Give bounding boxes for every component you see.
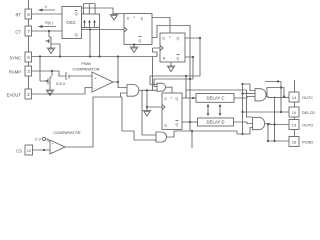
svg-text:12: 12 xyxy=(27,149,31,153)
comb box lower (cropped block) xyxy=(82,14,100,28)
pin OUTD 13 xyxy=(289,120,299,130)
svg-text:Q: Q xyxy=(177,57,180,61)
svg-text:COMPARATOR: COMPARATOR xyxy=(53,130,80,135)
current arrow R(t) xyxy=(39,26,57,28)
wire CT to OSC xyxy=(32,30,63,32)
arrowhead current R xyxy=(39,25,43,28)
svg-text:Q: Q xyxy=(74,11,77,16)
svg-text:SYNC: SYNC xyxy=(9,56,21,61)
AND gate OUTD xyxy=(253,117,265,129)
svg-text:COMPARATOR: COMPARATOR xyxy=(72,67,99,72)
wire DELAY D out to OUTD gate xyxy=(234,122,253,124)
svg-text:Q: Q xyxy=(177,37,180,41)
node right rail xyxy=(241,83,243,85)
wire FF2 Qbar to AND3 xyxy=(154,57,193,87)
wire OUTD gate output to pin 13 xyxy=(265,124,289,125)
wire mid cross bus xyxy=(121,97,123,131)
node CS wire xyxy=(43,149,45,151)
svg-text:16: 16 xyxy=(292,139,297,144)
svg-text:13: 13 xyxy=(292,122,297,127)
wire comb teeth / CLK drops xyxy=(85,20,100,57)
wire left pin column vertical xyxy=(28,0,30,99)
wire FF1 Q to FF2 xyxy=(152,18,170,34)
wire EAOUT to PWM comparator inverting input xyxy=(32,88,93,95)
svg-text:CT: CT xyxy=(15,30,21,35)
wire RAMP to 0.8V offset xyxy=(32,71,67,76)
svg-text:OUTD: OUTD xyxy=(302,122,313,127)
pin CS 12 xyxy=(25,145,33,155)
pin SYNC 6 xyxy=(25,52,32,62)
wire AND1 output bus xyxy=(139,89,157,91)
svg-text:CS: CS xyxy=(16,149,22,154)
delay block DELAY D xyxy=(198,118,234,126)
AND gate AND2 xyxy=(156,132,167,142)
wire stub below bus xyxy=(191,131,193,148)
svg-text:Q: Q xyxy=(139,39,142,43)
node OUTC loop xyxy=(283,95,285,97)
node AND1 out xyxy=(146,89,148,91)
flip-flop FF2 xyxy=(160,33,185,62)
pin RAMP 3 xyxy=(25,66,32,76)
node RAMP junction xyxy=(51,70,53,72)
wire AND2 input lower xyxy=(122,131,156,140)
arrowhead current I xyxy=(39,9,43,12)
node SYNC junctions xyxy=(39,55,41,57)
transistor Q1 CT discharge xyxy=(49,31,60,57)
svg-text:DELCD: DELCD xyxy=(302,110,315,115)
flip-flop FF3 pwm latch xyxy=(162,93,182,130)
ground at FF3 clock xyxy=(143,107,152,116)
op-amp PWM comparator xyxy=(92,72,113,92)
svg-text:Q: Q xyxy=(141,17,144,21)
pin RT 8 xyxy=(25,9,32,19)
ground at FF1 D input xyxy=(110,14,119,21)
arrowheads delay C-D xyxy=(207,104,210,107)
transistor Q1 arrow xyxy=(46,40,49,42)
wire AND2 output to bus xyxy=(166,131,174,137)
arrows between delay blocks xyxy=(208,105,220,116)
wire FF3 clock xyxy=(147,90,162,107)
pin OUTC 14 xyxy=(289,92,299,102)
wire FF3 Qbar to DELAY D xyxy=(182,121,198,123)
svg-text:EAOUT: EAOUT xyxy=(7,93,22,98)
svg-text:Q: Q xyxy=(176,97,179,101)
terminal 2V reference xyxy=(42,137,45,140)
pin CT 7 xyxy=(25,26,32,36)
svg-text:IT: IT xyxy=(45,5,48,10)
wire OUTC feedback loop xyxy=(267,88,284,97)
wire CS comparator to AND1 xyxy=(65,93,127,147)
oscillator OSC xyxy=(62,7,82,39)
wire rail to OUTC gate top input xyxy=(243,84,256,91)
flip-flop FF1 toggle xyxy=(124,14,152,45)
svg-text:Q: Q xyxy=(176,123,179,127)
svg-text:PGND: PGND xyxy=(302,139,313,144)
wire bottom bus xyxy=(174,122,253,134)
wire riser to top bus xyxy=(186,90,252,117)
ground under FF2 xyxy=(167,62,176,72)
AND gate AND3 xyxy=(157,83,166,91)
wire DELAY C out to OUTC gate xyxy=(234,97,255,99)
wire FF3 Q to DELAY C xyxy=(182,97,196,99)
transistor Q2 RAMP discharge xyxy=(40,57,52,85)
svg-text:RAMP: RAMP xyxy=(9,70,21,75)
transistor Q2 arrow xyxy=(45,80,48,82)
node bus131 xyxy=(191,130,193,132)
svg-text:10: 10 xyxy=(292,110,297,115)
svg-text:Q: Q xyxy=(74,32,77,37)
svg-text:OUTC: OUTC xyxy=(302,95,313,100)
ground under Q1 xyxy=(47,45,56,54)
node FF2 Q bus xyxy=(185,75,187,77)
svg-text:OSC: OSC xyxy=(66,20,76,25)
wire FF2 clock feed xyxy=(153,48,161,90)
wire FF2 Q to AND3 and delay bus xyxy=(150,38,200,84)
wire OUTC gate output to pin 14 xyxy=(266,96,289,99)
wire PGND line to pin 16 xyxy=(268,140,289,142)
pin DELCD 10 xyxy=(289,107,299,117)
node OUTD line xyxy=(267,123,269,125)
node CT junction xyxy=(48,30,50,32)
pin EAOUT 2 xyxy=(25,89,32,99)
comb bus upper (cropped wires) xyxy=(82,4,104,15)
wire DELCD line to pin 10 xyxy=(243,111,290,113)
svg-text:DELAY D: DELAY D xyxy=(207,120,225,125)
svg-text:DELAY C: DELAY C xyxy=(207,96,225,101)
node PGND crossings xyxy=(267,140,269,142)
wire rail to OUTC gate mid input xyxy=(243,93,256,95)
wire FF1 Qbar down bus xyxy=(152,26,190,123)
current arrow I top xyxy=(39,9,56,11)
svg-text:R(IT): R(IT) xyxy=(45,21,53,26)
svg-text:RT: RT xyxy=(15,13,21,18)
wire cross vertical x278 xyxy=(265,82,281,113)
node FF3 clock xyxy=(146,106,148,108)
wire PWM comparator output to AND1 xyxy=(113,57,127,88)
wire cross vertical x275 xyxy=(268,97,275,142)
node FF1 bottom xyxy=(133,43,135,45)
svg-text:PWM: PWM xyxy=(81,61,91,66)
wire right vertical rail xyxy=(242,84,244,134)
ground under FF1 xyxy=(130,45,139,53)
svg-text:2 V: 2 V xyxy=(35,137,41,142)
wire OSC Q to FF1 clock xyxy=(82,29,125,31)
op-amp CS comparator xyxy=(50,140,65,154)
arrowhead comb teeth xyxy=(83,20,86,23)
delay block DELAY C xyxy=(196,94,234,103)
node CLK drops xyxy=(89,28,91,30)
wire AND3 out to FF3 set xyxy=(166,87,173,93)
AND gate OUTC xyxy=(255,89,266,101)
wire comb bar to ground and FF1 xyxy=(103,8,124,14)
ground under Q2 xyxy=(46,85,55,96)
wire RT to OSC xyxy=(32,13,63,15)
wire SYNC net xyxy=(32,56,158,58)
svg-text:0.8 V: 0.8 V xyxy=(56,81,66,86)
wire CS to comparator xyxy=(33,149,51,151)
node EAOUT ground junction xyxy=(49,93,51,95)
arrowheads xyxy=(39,9,222,117)
svg-text:14: 14 xyxy=(292,95,297,100)
pin PGND 16 xyxy=(289,137,299,147)
wire right pin rail xyxy=(294,80,296,147)
battery 0.8V offset xyxy=(66,72,92,80)
AND gate AND1 pwm xyxy=(127,85,139,97)
node FF2 Qbar bus xyxy=(189,78,191,80)
